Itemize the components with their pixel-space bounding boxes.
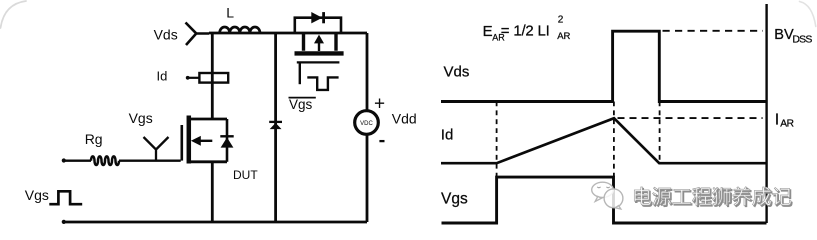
axis right bbox=[765, 4, 767, 223]
transistor clamp FET bbox=[295, 33, 344, 90]
dashed level IAR bbox=[618, 117, 763, 119]
label level BVDSS bbox=[774, 27, 812, 45]
svg-text:Rg: Rg bbox=[85, 131, 103, 147]
trace Vds bbox=[441, 31, 767, 101]
svg-text:AR: AR bbox=[557, 31, 570, 42]
inductor L bbox=[220, 27, 260, 33]
svg-text:Vgs: Vgs bbox=[441, 190, 468, 207]
wire drain vertical bbox=[211, 33, 214, 119]
svg-text:Vds: Vds bbox=[154, 26, 178, 42]
svg-text:2: 2 bbox=[558, 15, 564, 26]
svg-text:Vgs: Vgs bbox=[25, 187, 49, 203]
dashed vertical t3 bbox=[659, 102, 661, 164]
node bottom terminal bbox=[62, 220, 66, 224]
svg-text:Vgs: Vgs bbox=[289, 97, 313, 112]
svg-text:Vgs: Vgs bbox=[129, 110, 153, 126]
waveform traces bbox=[441, 4, 767, 223]
svg-text:Vds: Vds bbox=[444, 63, 470, 80]
svg-text:VDC: VDC bbox=[360, 121, 373, 127]
transistor DUT mosfet bbox=[182, 116, 227, 164]
wire gate input bbox=[64, 159, 91, 161]
watermark logo bbox=[592, 182, 623, 209]
label level IAR bbox=[775, 111, 794, 129]
svg-text:Id: Id bbox=[441, 126, 454, 143]
probe Vds bbox=[186, 23, 210, 46]
svg-text:Id: Id bbox=[157, 68, 168, 83]
svg-text:= 1/2 LI: = 1/2 LI bbox=[501, 23, 550, 40]
source VDC bbox=[355, 33, 379, 222]
label equation E_AR = 1/2 L I^2_AR bbox=[483, 15, 571, 43]
diode clamp FET parallel bbox=[295, 12, 341, 33]
svg-text:E: E bbox=[483, 23, 493, 40]
dashed vertical t2 bbox=[613, 102, 615, 178]
resistor Rg bbox=[91, 156, 119, 165]
label Vgs overline bbox=[289, 97, 316, 99]
diode clamp branch bbox=[269, 33, 282, 222]
node gate input terminal bbox=[62, 158, 66, 162]
svg-text:I: I bbox=[775, 111, 779, 128]
svg-text:L: L bbox=[226, 4, 234, 20]
probe Vgs gate bbox=[144, 137, 169, 160]
label minus terminal bbox=[379, 140, 384, 142]
trace Vgs bbox=[442, 177, 767, 223]
wire bottom rail bbox=[64, 221, 368, 224]
svg-text:DUT: DUT bbox=[233, 168, 258, 182]
current probe Id bbox=[186, 73, 228, 83]
svg-text:DSS: DSS bbox=[792, 33, 812, 45]
diode DUT body bbox=[220, 119, 233, 162]
wire gate bbox=[119, 159, 181, 161]
wire top rail bbox=[209, 32, 367, 35]
svg-text:AR: AR bbox=[780, 119, 793, 130]
dashed vertical t1 bbox=[496, 102, 498, 178]
wire source vertical bbox=[211, 162, 214, 222]
svg-text:+: + bbox=[374, 93, 385, 114]
Vgs input pulse bbox=[49, 191, 82, 204]
dashed level BVDSS bbox=[663, 30, 764, 32]
trace Id bbox=[441, 118, 767, 163]
watermark text bbox=[636, 188, 793, 207]
svg-text:Vdd: Vdd bbox=[392, 111, 417, 127]
svg-text:BV: BV bbox=[774, 27, 794, 43]
